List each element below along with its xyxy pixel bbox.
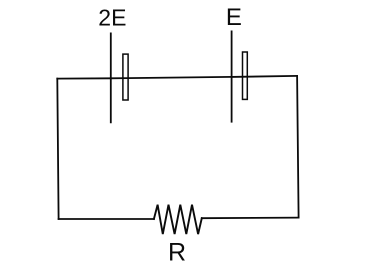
wire right side	[297, 76, 299, 218]
svg-text:2E: 2E	[98, 5, 126, 31]
battery cell E short plate	[243, 52, 248, 99]
wire top-right segment	[232, 76, 298, 77]
battery cell 2E long plate	[110, 33, 112, 122]
resistor R zigzag	[154, 205, 202, 234]
battery cell 2E short plate	[123, 54, 128, 100]
wire bottom-right segment	[202, 217, 299, 220]
wire top-middle segment	[111, 77, 232, 78]
wire top-left segment	[57, 77, 111, 79]
battery cell E long plate	[231, 31, 233, 121]
wire bottom-left segment	[59, 218, 154, 220]
svg-text:E: E	[226, 4, 242, 31]
svg-text:R: R	[168, 239, 186, 267]
wire left side	[57, 79, 58, 219]
